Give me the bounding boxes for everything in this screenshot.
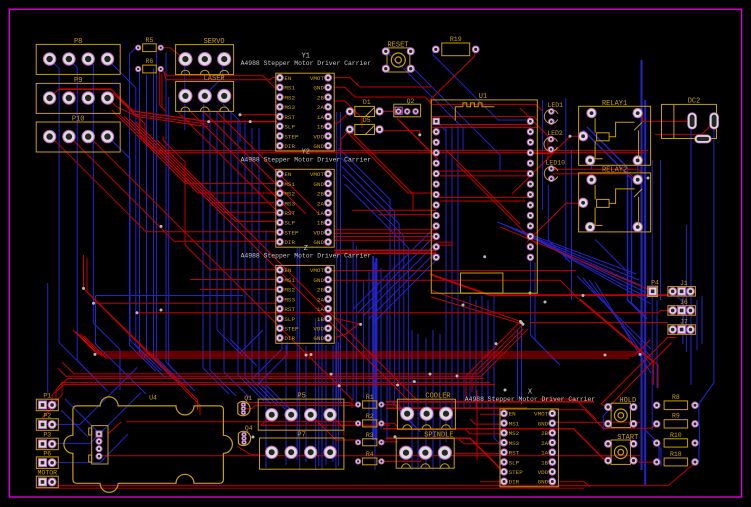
- wire: [69, 136, 280, 242]
- wire: [553, 421, 640, 423]
- pad P4: [648, 280, 659, 297]
- wire: [65, 399, 101, 435]
- wire: [137, 310, 672, 312]
- svg-text:GND: GND: [313, 277, 324, 284]
- wire: [571, 150, 573, 300]
- svg-text:R19: R19: [450, 36, 462, 43]
- svg-text:VMOT: VMOT: [310, 267, 325, 274]
- wire: [527, 203, 583, 242]
- svg-text:SLP: SLP: [284, 124, 295, 131]
- wire: [548, 185, 570, 262]
- svg-text:1A: 1A: [317, 306, 325, 313]
- wire: [440, 200, 525, 202]
- wire: [638, 113, 643, 122]
- wire: [381, 423, 398, 427]
- wire: [517, 330, 519, 400]
- resistor R19: [432, 36, 479, 56]
- wire: [76, 332, 637, 354]
- svg-text:EN: EN: [284, 267, 292, 274]
- via: [418, 133, 421, 136]
- wire: [433, 50, 526, 120]
- wire: [530, 322, 668, 324]
- relay RELAY1: [578, 100, 650, 166]
- svg-text:SLP: SLP: [284, 316, 295, 323]
- resistor R4: [356, 451, 385, 465]
- wire: [209, 121, 277, 123]
- svg-text:DIR: DIR: [509, 479, 520, 486]
- svg-text:LED1: LED1: [547, 102, 563, 109]
- via: [462, 304, 465, 307]
- svg-text:MS3: MS3: [284, 200, 295, 207]
- wire: [334, 239, 436, 241]
- wire: [642, 120, 692, 122]
- wire: [50, 136, 280, 232]
- wire: [397, 119, 436, 158]
- svg-text:STEP: STEP: [284, 326, 299, 333]
- svg-text:RST: RST: [509, 450, 520, 457]
- svg-text:GND: GND: [313, 335, 324, 342]
- wire: [565, 98, 567, 260]
- wire: [299, 248, 301, 470]
- wire: [459, 439, 505, 444]
- wire: [223, 104, 240, 142]
- svg-text:EN: EN: [509, 411, 517, 418]
- wire: [436, 170, 530, 172]
- wire: [511, 228, 642, 286]
- wire: [50, 59, 105, 389]
- wire: [164, 73, 280, 80]
- wire: [113, 93, 209, 124]
- svg-text:2A: 2A: [541, 440, 549, 447]
- via: [520, 321, 523, 324]
- wire: [355, 246, 357, 404]
- svg-text:1A: 1A: [541, 450, 549, 457]
- wire: [457, 126, 459, 408]
- svg-text:GND: GND: [538, 420, 549, 427]
- wire: [644, 100, 646, 485]
- wire: [334, 249, 436, 251]
- wire: [352, 133, 436, 210]
- wire: [50, 89, 59, 97]
- wire: [431, 290, 521, 398]
- wire: [660, 160, 662, 300]
- relay RELAY2: [578, 166, 650, 232]
- svg-text:2A: 2A: [317, 104, 325, 111]
- wire: [258, 342, 287, 384]
- pushbutton RESET: [382, 41, 414, 72]
- svg-text:MS2: MS2: [284, 287, 295, 294]
- wire: [525, 234, 648, 298]
- resistor R2: [356, 413, 385, 427]
- svg-text:VMOT: VMOT: [310, 171, 325, 178]
- wire: [334, 235, 436, 237]
- wire: [154, 68, 180, 384]
- via: [330, 373, 333, 376]
- wire: [590, 160, 592, 170]
- wire: [58, 329, 528, 376]
- svg-text:SERVO: SERVO: [204, 38, 225, 46]
- wire: [166, 52, 192, 388]
- wire: [266, 230, 292, 411]
- wire: [560, 482, 590, 487]
- svg-text:VDD: VDD: [538, 469, 549, 476]
- svg-text:VDD: VDD: [313, 133, 324, 140]
- resistor R5: [136, 37, 164, 52]
- via: [396, 384, 399, 387]
- wire: [203, 104, 205, 126]
- wire: [672, 291, 683, 329]
- motor footprint U4: [64, 395, 233, 493]
- svg-text:LASER: LASER: [204, 75, 226, 83]
- wire: [136, 130, 162, 371]
- wire: [368, 272, 370, 420]
- connector SERVO: [176, 38, 234, 75]
- wire: [685, 225, 687, 352]
- wire: [334, 101, 362, 128]
- wire: [334, 318, 359, 324]
- wire: [204, 112, 306, 214]
- wire: [656, 300, 658, 388]
- wire: [341, 131, 350, 150]
- wire: [411, 330, 413, 470]
- wire: [259, 128, 285, 409]
- wire: [62, 329, 523, 374]
- wire: [251, 342, 282, 380]
- wire: [332, 345, 334, 462]
- svg-text:GND: GND: [313, 143, 324, 150]
- diode D1: [346, 99, 383, 117]
- svg-text:2B: 2B: [317, 191, 325, 198]
- led LED10: [544, 159, 565, 181]
- svg-text:EN: EN: [284, 171, 292, 178]
- wire: [580, 299, 658, 388]
- wire: [160, 48, 185, 59]
- connector P3: [36, 432, 58, 450]
- svg-text:VMOT: VMOT: [534, 411, 549, 418]
- wire: [342, 166, 412, 422]
- wire: [191, 112, 293, 214]
- wire: [480, 413, 505, 415]
- svg-text:A4988 Stepper Motor Driver Car: A4988 Stepper Motor Driver Carrier: [241, 60, 372, 67]
- wire: [337, 342, 339, 466]
- connector COOLER: [397, 393, 455, 430]
- svg-text:P1: P1: [43, 393, 51, 400]
- wire: [383, 405, 407, 413]
- wire: [595, 239, 630, 274]
- connector P8: [36, 38, 120, 75]
- svg-text:1A: 1A: [317, 210, 325, 217]
- wire: [583, 278, 651, 357]
- wire: [184, 104, 186, 130]
- svg-text:R8: R8: [672, 394, 680, 401]
- wire: [330, 415, 344, 436]
- wire: [641, 60, 643, 470]
- wire: [374, 262, 376, 470]
- svg-text:MS3: MS3: [284, 296, 295, 303]
- stepper driver module Z: [241, 245, 372, 343]
- diode D5: [346, 117, 383, 135]
- resistor R10: [654, 432, 699, 447]
- svg-text:RST: RST: [284, 210, 295, 217]
- via: [504, 389, 507, 392]
- wire: [318, 318, 320, 466]
- wire: [445, 126, 447, 442]
- wire: [430, 274, 668, 295]
- wire: [126, 105, 644, 153]
- via: [359, 323, 362, 326]
- resistor R6: [136, 58, 164, 73]
- connector P10: [36, 116, 120, 153]
- wire: [169, 97, 195, 391]
- wire: [217, 112, 243, 356]
- connector P5: [258, 393, 344, 431]
- svg-text:DIR: DIR: [284, 143, 295, 150]
- svg-text:SPINDLE: SPINDLE: [424, 432, 453, 440]
- svg-text:EN: EN: [284, 75, 292, 82]
- wire: [400, 121, 438, 159]
- wire: [475, 300, 477, 408]
- connector J6: [668, 299, 696, 315]
- svg-text:STEP: STEP: [284, 133, 299, 140]
- svg-text:GND: GND: [313, 239, 324, 246]
- wire: [436, 241, 453, 243]
- wire: [148, 140, 410, 402]
- wire: [163, 136, 276, 270]
- svg-text:1B: 1B: [317, 316, 325, 323]
- wire: [345, 130, 436, 193]
- wire: [59, 88, 111, 90]
- svg-text:Q1: Q1: [244, 395, 252, 402]
- wire: [431, 104, 542, 110]
- wire: [587, 127, 643, 316]
- via: [429, 373, 432, 376]
- wire: [699, 122, 714, 462]
- wire: [440, 175, 530, 177]
- wire: [607, 343, 672, 412]
- svg-text:J1: J1: [680, 280, 688, 287]
- microcontroller U1: [431, 93, 537, 293]
- wire: [161, 74, 163, 107]
- wire: [47, 283, 49, 394]
- wire: [200, 288, 276, 290]
- wire: [651, 160, 653, 430]
- wire: [334, 78, 431, 87]
- via: [529, 292, 532, 295]
- stepper driver module X: [465, 388, 596, 487]
- wire: [118, 113, 280, 193]
- via: [94, 353, 97, 356]
- wire: [381, 452, 430, 461]
- svg-text:SLP: SLP: [509, 459, 520, 466]
- wire: [358, 235, 436, 313]
- wire: [107, 136, 146, 356]
- via: [82, 287, 85, 290]
- wire: [501, 227, 653, 291]
- wire: [480, 481, 505, 483]
- wire: [521, 326, 523, 404]
- svg-text:RST: RST: [284, 114, 295, 121]
- wire: [696, 300, 698, 350]
- wire: [107, 59, 136, 130]
- via: [252, 436, 255, 439]
- wire: [363, 280, 365, 398]
- wire: [136, 68, 140, 136]
- wire: [80, 334, 650, 356]
- wire: [637, 160, 639, 172]
- wire: [336, 324, 359, 338]
- wire: [56, 463, 696, 486]
- via: [239, 113, 242, 116]
- svg-text:2B: 2B: [317, 94, 325, 101]
- via: [394, 435, 397, 438]
- wire: [210, 111, 236, 396]
- wire: [352, 209, 436, 211]
- via: [160, 309, 163, 312]
- svg-text:DIR: DIR: [284, 239, 295, 246]
- via: [495, 342, 498, 345]
- via: [249, 120, 252, 123]
- via: [207, 120, 210, 123]
- wire: [386, 438, 503, 471]
- svg-text:2B: 2B: [541, 430, 549, 437]
- connector MOTOR: [36, 470, 58, 488]
- wire: [84, 336, 630, 358]
- wire: [386, 407, 527, 409]
- wire: [455, 453, 505, 455]
- wire: [334, 111, 350, 123]
- wire: [117, 96, 648, 150]
- wire: [124, 116, 280, 203]
- wire: [112, 110, 280, 183]
- wire: [88, 136, 352, 408]
- wire: [328, 270, 576, 272]
- wire: [690, 122, 692, 385]
- wire: [130, 119, 280, 212]
- wire: [160, 72, 166, 112]
- wire: [238, 120, 264, 401]
- wire: [595, 282, 651, 373]
- via: [413, 380, 416, 383]
- resistor R8: [654, 394, 699, 410]
- svg-text:P3: P3: [43, 432, 51, 439]
- wire: [296, 248, 298, 460]
- wire: [601, 338, 677, 407]
- wire: [334, 229, 436, 231]
- pushbutton START: [605, 434, 639, 464]
- transistor Q4: [238, 425, 252, 446]
- wire: [47, 382, 490, 410]
- wire: [655, 122, 714, 134]
- stepper driver module Y2: [241, 149, 372, 248]
- wire: [487, 300, 489, 408]
- wire: [36, 487, 584, 489]
- wire: [701, 296, 703, 344]
- via: [338, 384, 341, 387]
- resistor R9: [654, 413, 699, 428]
- wire: [56, 434, 128, 463]
- svg-text:MS2: MS2: [284, 94, 295, 101]
- svg-text:MS2: MS2: [509, 430, 520, 437]
- wire: [88, 59, 120, 390]
- via: [305, 354, 308, 357]
- wire: [136, 122, 280, 221]
- wire: [518, 231, 645, 292]
- svg-text:RST: RST: [284, 306, 295, 313]
- svg-text:D5: D5: [363, 117, 371, 124]
- wire: [96, 296, 147, 395]
- wire: [436, 244, 453, 246]
- stepper driver module Y1: [241, 53, 372, 152]
- wire: [363, 243, 436, 316]
- svg-text:SLP: SLP: [284, 220, 295, 227]
- via: [92, 302, 95, 305]
- wire: [530, 258, 556, 361]
- wire: [285, 345, 287, 465]
- wire: [69, 59, 108, 392]
- via: [582, 294, 585, 297]
- connector J1: [668, 280, 696, 296]
- connector P2: [36, 412, 58, 430]
- wire: [126, 421, 360, 423]
- wire: [353, 226, 436, 309]
- wire: [431, 297, 523, 392]
- via: [310, 353, 313, 356]
- wire: [108, 422, 122, 434]
- resistor R1: [356, 394, 385, 408]
- wire: [107, 98, 208, 127]
- wire: [84, 255, 198, 410]
- wire: [238, 447, 258, 455]
- wire: [52, 393, 141, 444]
- wire: [346, 258, 348, 395]
- wire: [432, 330, 434, 470]
- svg-text:P8: P8: [74, 38, 82, 46]
- wire: [42, 385, 495, 418]
- wire: [369, 252, 437, 320]
- wire: [553, 169, 642, 173]
- wire: [243, 403, 353, 405]
- wire: [52, 368, 137, 425]
- via: [647, 177, 650, 180]
- barrel jack DC2: [662, 98, 719, 143]
- wire: [436, 196, 530, 198]
- wire: [375, 258, 377, 440]
- wire: [451, 126, 453, 430]
- wire: [383, 429, 607, 463]
- svg-text:1B: 1B: [317, 124, 325, 131]
- svg-text:MS3: MS3: [509, 440, 520, 447]
- wire: [130, 48, 136, 100]
- wire: [386, 276, 388, 440]
- wire: [190, 279, 276, 281]
- via: [522, 323, 525, 326]
- wire: [381, 441, 398, 443]
- svg-text:P10: P10: [72, 116, 85, 124]
- svg-text:COOLER: COOLER: [425, 393, 451, 401]
- svg-text:R3: R3: [366, 432, 374, 439]
- via: [519, 320, 522, 323]
- wire: [652, 440, 661, 466]
- connector J7: [668, 318, 696, 334]
- svg-text:R1: R1: [366, 394, 374, 401]
- wire: [556, 410, 657, 428]
- svg-text:GND: GND: [313, 181, 324, 188]
- svg-text:VDD: VDD: [313, 229, 324, 236]
- via: [604, 354, 607, 357]
- resistor R18: [654, 451, 699, 466]
- led LED2: [544, 130, 563, 152]
- wire: [446, 150, 520, 224]
